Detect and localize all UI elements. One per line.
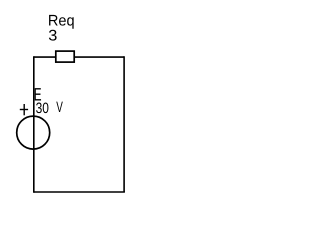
wire bottom bbox=[34, 191, 125, 193]
wire top bbox=[34, 56, 124, 58]
svg-text:30: 30 bbox=[36, 100, 49, 117]
svg-text:V: V bbox=[56, 99, 63, 116]
svg-text:3: 3 bbox=[48, 28, 57, 45]
voltage source E (circle) bbox=[17, 116, 50, 149]
plus polarity mark bbox=[20, 104, 28, 115]
wire right bbox=[123, 56, 125, 192]
wire left bbox=[33, 56, 35, 193]
resistor Req bbox=[56, 51, 74, 62]
